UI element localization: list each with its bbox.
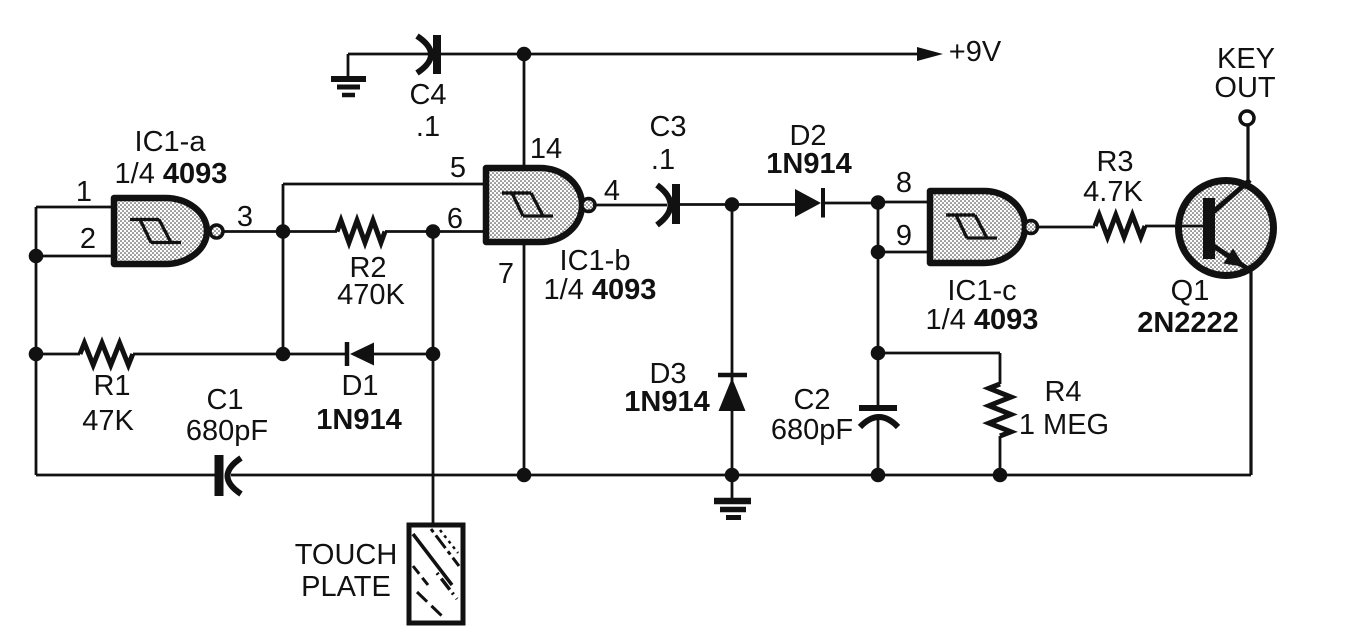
- wire R2 leads: [283, 230, 486, 233]
- svg-text:1: 1: [76, 176, 92, 208]
- junction pin8 node: [871, 195, 886, 210]
- wire pin4 output to C3: [595, 204, 667, 207]
- svg-text:KEY: KEY: [1217, 43, 1275, 75]
- resistor R1: [80, 343, 134, 437]
- wire node8 vertical bus: [877, 202, 880, 475]
- junction bottom R4: [993, 468, 1008, 483]
- svg-text:4.7K: 4.7K: [1083, 176, 1143, 208]
- capacitor C1: [186, 384, 268, 496]
- junction pin6 node: [426, 224, 441, 239]
- svg-text:IC1-b: IC1-b: [560, 245, 631, 277]
- svg-text:14: 14: [530, 133, 562, 165]
- svg-text:2: 2: [80, 223, 96, 255]
- svg-text:Q1: Q1: [1171, 275, 1210, 307]
- svg-text:1/4 4093: 1/4 4093: [115, 158, 228, 190]
- svg-text:3: 3: [237, 201, 253, 233]
- svg-text:5: 5: [450, 152, 466, 184]
- diode D1: [316, 342, 401, 436]
- svg-text:IC1-c: IC1-c: [947, 275, 1016, 307]
- wire pin2 input: [36, 255, 114, 258]
- svg-text:IC1-a: IC1-a: [135, 126, 207, 158]
- svg-text:C3: C3: [649, 111, 686, 143]
- junction R1 left: [29, 347, 44, 362]
- svg-text:1/4 4093: 1/4 4093: [544, 274, 657, 306]
- wire C3 to D2: [680, 203, 795, 206]
- capacitor C2: [771, 384, 898, 446]
- junction top rail pin14: [517, 47, 532, 62]
- junction bottom GND2: [725, 468, 740, 483]
- wire pin14 vertical: [523, 54, 526, 168]
- capacitor C4: [409, 35, 446, 143]
- wire pin7 vertical: [523, 242, 526, 475]
- svg-text:1N914: 1N914: [766, 148, 851, 180]
- svg-text:C4: C4: [409, 79, 446, 111]
- wire pin1 input: [36, 206, 114, 209]
- wire D3 vertical: [731, 205, 734, 476]
- wire left vertical bus: [35, 207, 38, 475]
- power arrow +9V: [917, 36, 1002, 68]
- wire pin5 feedback: [283, 184, 486, 354]
- svg-text:PLATE: PLATE: [301, 571, 391, 603]
- wire top +9V rail: [348, 53, 918, 56]
- svg-text:2N2222: 2N2222: [1137, 307, 1239, 339]
- junction C2 R4 node: [871, 346, 886, 361]
- touch plate: [295, 525, 463, 623]
- wire bottom rail: [36, 474, 1251, 477]
- svg-text:470K: 470K: [337, 279, 405, 311]
- junction C3 D3 node: [725, 197, 740, 212]
- junction R1 right: [276, 347, 291, 362]
- junction D1 touch node: [426, 347, 441, 362]
- svg-text:6: 6: [447, 203, 463, 235]
- wire pin9 input: [878, 251, 930, 254]
- svg-text:R1: R1: [93, 370, 130, 402]
- NAND gate IC1-a: [114, 126, 227, 264]
- resistor R3: [1083, 146, 1145, 237]
- svg-text:C2: C2: [793, 384, 830, 416]
- svg-text:1N914: 1N914: [316, 404, 401, 436]
- diode D3: [624, 358, 747, 418]
- NAND gate IC1-c: [926, 191, 1039, 336]
- svg-text:7: 7: [498, 258, 514, 290]
- svg-text:.1: .1: [651, 144, 675, 176]
- svg-text:OUT: OUT: [1214, 72, 1276, 104]
- node KEY OUT terminal: [1214, 43, 1276, 125]
- junction pin2 left bus: [29, 249, 44, 264]
- junction pin3 node: [276, 224, 291, 239]
- svg-text:680pF: 680pF: [186, 415, 268, 447]
- svg-text:R4: R4: [1044, 376, 1081, 408]
- svg-text:D1: D1: [341, 370, 378, 402]
- ground GND1: [331, 54, 366, 95]
- wire pin8 input: [878, 201, 930, 204]
- diode D2: [766, 120, 851, 218]
- svg-text:680pF: 680pF: [771, 414, 853, 446]
- svg-text:TOUCH: TOUCH: [295, 539, 398, 571]
- wire R1 D1 row: [36, 353, 433, 356]
- junction bottom C2: [871, 468, 886, 483]
- wire D2 to node 8: [825, 202, 878, 205]
- svg-text:4: 4: [604, 175, 620, 207]
- svg-text:9: 9: [896, 220, 912, 252]
- junction pin9 node: [871, 245, 886, 260]
- svg-text:1/4 4093: 1/4 4093: [926, 304, 1039, 336]
- svg-text:C1: C1: [206, 384, 243, 416]
- svg-text:8: 8: [896, 167, 912, 199]
- svg-text:1 MEG: 1 MEG: [1019, 409, 1109, 441]
- wire collector to key out: [1246, 126, 1249, 180]
- capacitor C3: [649, 111, 686, 225]
- ground GND2: [714, 475, 751, 518]
- NAND gate IC1-b: [486, 168, 656, 306]
- wire pin3 output: [223, 230, 283, 233]
- svg-text:47K: 47K: [82, 405, 134, 437]
- svg-text:.1: .1: [416, 111, 440, 143]
- resistor R2: [337, 221, 406, 312]
- wire emitter vertical: [1249, 271, 1252, 475]
- resistor R4: [989, 376, 1109, 441]
- wire R4 branch: [878, 353, 1000, 475]
- wire pin10 output to R3: [1037, 226, 1203, 227]
- wire node to touch plate vertical: [432, 232, 435, 526]
- svg-text:R3: R3: [1096, 146, 1133, 178]
- junction bottom pin7: [517, 468, 532, 483]
- svg-text:1N914: 1N914: [624, 386, 709, 418]
- transistor Q1: [1137, 180, 1273, 339]
- svg-text:+9V: +9V: [949, 36, 1002, 68]
